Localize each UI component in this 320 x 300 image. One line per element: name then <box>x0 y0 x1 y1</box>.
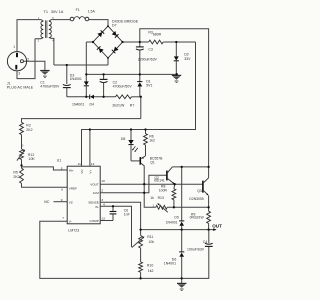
svg-text:3: 3 <box>101 198 103 202</box>
svg-text:10: 10 <box>101 179 105 183</box>
svg-text:1N4001: 1N4001 <box>166 220 178 224</box>
svg-text:10k: 10k <box>148 240 154 244</box>
svg-text:Q3: Q3 <box>197 189 202 193</box>
svg-text:PLUG AC MALE: PLUG AC MALE <box>7 86 34 90</box>
svg-text:100uF/63V: 100uF/63V <box>187 248 205 252</box>
svg-text:BD141: BD141 <box>154 179 164 183</box>
svg-text:4700uF/50V: 4700uF/50V <box>113 84 133 88</box>
svg-text:2200uF/63V: 2200uF/63V <box>138 57 158 61</box>
svg-text:V-: V- <box>69 220 72 224</box>
svg-text:30V 1A: 30V 1A <box>51 10 64 14</box>
svg-text:U1: U1 <box>57 158 62 162</box>
svg-text:D2: D2 <box>184 53 189 57</box>
svg-text:13: 13 <box>101 217 105 221</box>
svg-text:680R: 680R <box>153 33 162 37</box>
svg-text:R13: R13 <box>158 196 164 200</box>
svg-text:2K2: 2K2 <box>26 128 32 132</box>
svg-text:T1: T1 <box>44 10 48 14</box>
svg-text:VOUT: VOUT <box>90 182 99 186</box>
svg-text:Q1: Q1 <box>150 160 155 164</box>
svg-text:2: 2 <box>27 57 29 61</box>
svg-text:VC: VC <box>80 169 84 174</box>
svg-text:NC: NC <box>44 200 50 204</box>
svg-text:D4: D4 <box>90 103 95 107</box>
svg-text:0R33/1W: 0R33/1W <box>190 216 205 220</box>
svg-text:2K2: 2K2 <box>13 175 19 179</box>
svg-text:F1: F1 <box>76 8 80 12</box>
svg-text:ILIM: ILIM <box>93 191 99 195</box>
svg-text:1.5A: 1.5A <box>88 9 96 13</box>
svg-text:4: 4 <box>103 203 105 207</box>
svg-text:COMP: COMP <box>90 219 99 223</box>
svg-text:10K: 10K <box>29 157 36 161</box>
svg-text:1k2: 1k2 <box>148 269 154 273</box>
svg-text:C3: C3 <box>148 47 153 51</box>
svg-text:1nF: 1nF <box>124 213 130 217</box>
svg-text:12: 12 <box>91 162 95 166</box>
svg-text:7: 7 <box>62 216 64 220</box>
svg-text:D6: D6 <box>172 257 177 261</box>
svg-text:3: 3 <box>22 144 24 148</box>
svg-text:IN+: IN+ <box>69 168 74 172</box>
svg-text:V+: V+ <box>89 170 93 174</box>
svg-text:R7: R7 <box>130 103 135 107</box>
svg-text:100R: 100R <box>159 188 168 192</box>
svg-text:3: 3 <box>18 71 20 75</box>
svg-text:1N4001: 1N4001 <box>70 77 82 81</box>
svg-text:R5: R5 <box>13 171 18 175</box>
svg-text:D8: D8 <box>121 137 126 141</box>
svg-text:6: 6 <box>61 187 63 191</box>
svg-text:R11: R11 <box>147 235 153 239</box>
svg-text:D5: D5 <box>174 215 178 219</box>
svg-text:5V1: 5V1 <box>146 84 152 88</box>
svg-text:11: 11 <box>78 162 81 166</box>
svg-text:1N4001: 1N4001 <box>164 262 176 266</box>
svg-text:4700uF/50V: 4700uF/50V <box>40 85 60 89</box>
svg-text:OUT: OUT <box>212 223 222 228</box>
svg-text:2: 2 <box>101 188 103 192</box>
svg-text:R10: R10 <box>147 264 153 268</box>
svg-text:VREF: VREF <box>69 187 77 191</box>
svg-text:2k2/1W: 2k2/1W <box>112 103 125 107</box>
svg-text:LM723: LM723 <box>68 228 79 232</box>
svg-text:IN-: IN- <box>95 205 99 209</box>
svg-text:1k: 1k <box>150 196 154 200</box>
svg-text:C4: C4 <box>203 240 208 244</box>
svg-text:D7: D7 <box>112 24 117 28</box>
svg-text:1N4001: 1N4001 <box>72 103 84 107</box>
svg-text:33V: 33V <box>184 57 191 61</box>
svg-text:D2N3055: D2N3055 <box>189 197 203 201</box>
svg-text:1k2: 1k2 <box>149 138 155 142</box>
svg-text:9: 9 <box>61 198 63 202</box>
svg-text:5: 5 <box>61 167 63 171</box>
svg-text:1: 1 <box>13 45 15 49</box>
svg-text:VZ: VZ <box>69 200 73 204</box>
